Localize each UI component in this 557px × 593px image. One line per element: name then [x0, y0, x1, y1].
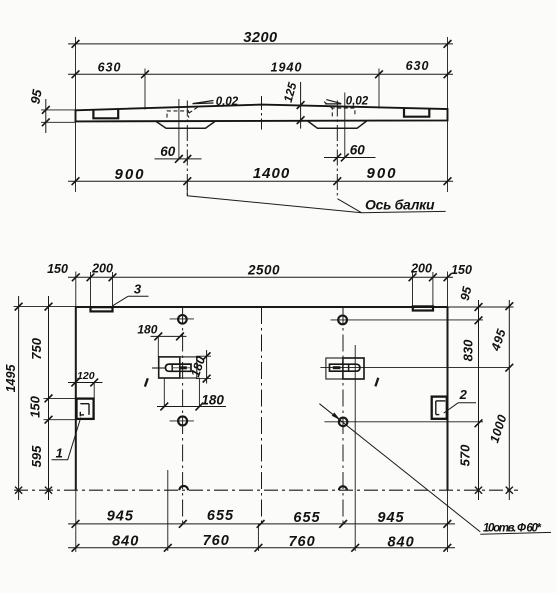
hole A1	[178, 315, 187, 324]
svg-text:Ось балки: Ось балки	[365, 197, 436, 213]
extension line 630 right boundary	[378, 69, 380, 109]
plan right edge	[447, 272, 449, 553]
svg-text:760: 760	[288, 534, 315, 550]
svg-text:120: 120	[77, 370, 95, 382]
svg-text:945: 945	[107, 509, 134, 525]
label 3	[112, 282, 148, 306]
rib 1 outline	[159, 357, 197, 378]
svg-text:200: 200	[91, 262, 113, 276]
svg-text:180: 180	[137, 322, 157, 336]
ext line center bottom	[257, 524, 259, 551]
svg-text:1400: 1400	[253, 165, 290, 182]
svg-text:3: 3	[134, 282, 142, 297]
hole row line top-left	[170, 318, 194, 320]
embedded plate left (elevation)	[93, 109, 118, 118]
svg-text:125: 125	[281, 81, 300, 104]
lifting loop 1 (capsule)	[166, 364, 192, 371]
beam axis 1 (elevation)	[186, 101, 188, 196]
leader Os balki	[187, 181, 445, 213]
plan symmetry axis (bottom)	[14, 489, 518, 491]
svg-text:630: 630	[98, 60, 122, 74]
embedded item 2	[432, 397, 447, 419]
center line (elevation)	[261, 96, 263, 130]
svg-text:60: 60	[160, 144, 176, 159]
dimension line 945-655-655-945	[68, 508, 455, 528]
svg-text:2: 2	[459, 387, 468, 402]
hole row line bottom-right	[324, 421, 483, 423]
hidden recess left (dashed)	[167, 107, 198, 118]
left chain 1495	[4, 296, 23, 500]
right rib pad (elevation)	[308, 121, 367, 128]
dimension line 3200	[68, 30, 453, 48]
dimension line 840-760-760-840	[68, 533, 455, 552]
svg-text:0,02: 0,02	[216, 96, 239, 108]
rib axis 2 (plan)	[342, 307, 344, 524]
label 10 otv F60	[480, 522, 551, 534]
hole B1	[178, 416, 187, 425]
extension line right end (elevation)	[447, 37, 449, 192]
svg-text:95: 95	[27, 88, 44, 106]
svg-text:60: 60	[350, 143, 366, 158]
svg-text:0,02: 0,02	[346, 95, 369, 107]
svg-text:2500: 2500	[247, 263, 280, 278]
svg-text:750: 750	[29, 337, 44, 359]
rib 2 outline	[326, 358, 364, 379]
plan left edge	[75, 272, 77, 553]
hole C1 (half on axis)	[179, 486, 188, 490]
plan center line	[261, 307, 263, 524]
left extension lines	[14, 307, 77, 420]
section mark I right	[375, 378, 378, 387]
svg-text:830: 830	[461, 339, 476, 361]
svg-text:3200: 3200	[243, 30, 277, 46]
svg-text:900: 900	[114, 166, 145, 183]
dimension 95 extension lines	[41, 110, 76, 122]
svg-text:1: 1	[56, 446, 63, 461]
dimension line 630-1940-630	[68, 59, 453, 78]
section mark I left	[145, 378, 148, 386]
dimension 180 bottom	[157, 378, 226, 411]
slope mark left	[193, 96, 239, 108]
beam axis 2 (elevation)	[336, 101, 338, 199]
svg-text:840: 840	[387, 535, 414, 551]
offset line 60 right	[344, 93, 346, 158]
hole B2	[339, 418, 348, 427]
label 1	[52, 418, 81, 461]
svg-text:595: 595	[29, 445, 44, 467]
dimension 180 top	[137, 322, 186, 356]
embedded plate right (elevation)	[404, 108, 429, 117]
loop 1 lead line	[152, 367, 166, 369]
beam outline (elevation)	[76, 105, 448, 122]
svg-text:945: 945	[377, 510, 404, 526]
dimension 180 right (vertical)	[188, 350, 211, 384]
dimension 120	[68, 370, 103, 399]
rib axis 1 (plan)	[182, 307, 184, 524]
svg-text:150: 150	[451, 263, 472, 277]
offset line 60 left	[178, 99, 180, 159]
right chain 95-830-570	[458, 284, 483, 500]
svg-text:760: 760	[203, 533, 230, 549]
right chain 495-1000	[487, 300, 513, 500]
hole A2	[338, 316, 347, 325]
svg-text:150: 150	[47, 262, 68, 276]
left chain 750-150-595	[28, 296, 53, 500]
left rib pad (elevation)	[156, 121, 215, 128]
hole C2 (half on axis)	[339, 486, 347, 490]
svg-text:630: 630	[406, 59, 430, 73]
svg-text:655: 655	[207, 508, 234, 524]
ext line 840-760 left	[167, 470, 169, 551]
embedded plate 3 (plan)	[91, 307, 113, 311]
embedded plate right (plan)	[413, 306, 433, 310]
svg-text:1940: 1940	[271, 60, 303, 74]
leader 10 holes	[319, 404, 480, 532]
svg-text:180: 180	[201, 392, 224, 407]
plan top edge	[76, 306, 448, 308]
svg-text:150: 150	[28, 395, 43, 417]
svg-text:180: 180	[188, 355, 208, 379]
embedded item 1	[77, 399, 94, 419]
dimension line 900-1400-900	[68, 165, 453, 185]
dimension line 95	[27, 88, 49, 133]
plan top extension lines	[91, 272, 433, 307]
label 2	[444, 387, 476, 413]
slope mark right	[325, 95, 369, 107]
dimension 125	[281, 81, 305, 129]
ext line 760-840 right	[354, 345, 356, 551]
svg-text:95: 95	[458, 284, 475, 302]
lifting loop 2 (capsule)	[330, 364, 360, 371]
svg-text:900: 900	[366, 165, 397, 182]
label Os balki	[365, 197, 436, 213]
svg-text:840: 840	[112, 534, 139, 550]
dimension 60 right	[324, 143, 376, 162]
svg-text:655: 655	[293, 510, 320, 526]
extension line left end (elevation)	[75, 37, 77, 192]
dimension line 150-200-2500-200-150	[47, 262, 472, 282]
svg-text:570: 570	[458, 444, 473, 466]
right extension line top	[448, 306, 514, 308]
extension line 630 left boundary	[144, 69, 146, 110]
svg-text:495: 495	[488, 326, 509, 353]
dimension 60 left	[155, 144, 202, 163]
hole row line bottom-left	[170, 420, 194, 422]
svg-text:1495: 1495	[4, 364, 18, 393]
svg-text:1000: 1000	[487, 413, 509, 445]
loop 2 lead line	[320, 367, 510, 369]
hole row line top-right	[331, 319, 484, 321]
hidden recess right (dashed)	[324, 102, 355, 117]
svg-text:200: 200	[410, 262, 432, 276]
